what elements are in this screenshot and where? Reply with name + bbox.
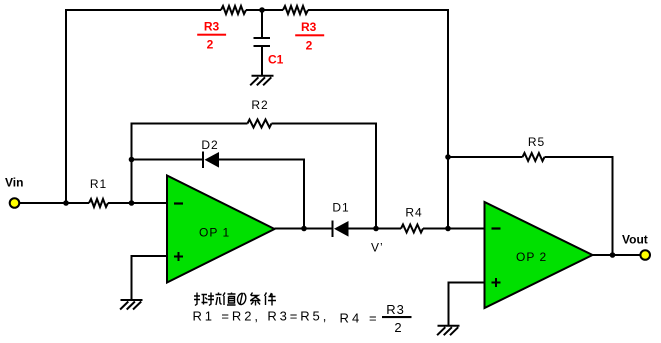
svg-text:OP 1: OP 1	[199, 226, 230, 240]
resistor R1	[89, 199, 108, 207]
text fraction R3/2 (black)	[382, 302, 412, 335]
svg-text:R3: R3	[204, 20, 220, 34]
node Vout	[610, 252, 616, 258]
svg-text:2: 2	[207, 38, 214, 52]
svg-text:R3: R3	[386, 302, 405, 317]
svg-text:Vout: Vout	[622, 233, 648, 247]
capacitor C1	[254, 38, 271, 46]
wire Vin to R1	[20, 202, 89, 204]
wire OP1 non-inverting input	[132, 256, 168, 300]
diode D1	[333, 221, 349, 238]
node V'	[373, 226, 379, 232]
wire R4 to OP2 inverting input	[423, 228, 485, 230]
label Vout	[622, 233, 648, 247]
resistor R5	[523, 153, 545, 161]
label node V'	[371, 241, 384, 255]
svg-text:D2: D2	[201, 138, 218, 152]
ground (OP2 +)	[437, 326, 459, 336]
label R3/2 right (red fraction)	[295, 20, 324, 53]
node R5 tap	[445, 154, 451, 160]
svg-text:R4 =: R4 =	[340, 311, 380, 326]
resistor R4	[401, 225, 423, 233]
node OP2 input	[445, 226, 451, 232]
label Vin	[5, 176, 23, 190]
label C1 (red)	[268, 53, 284, 67]
label R4	[405, 206, 422, 220]
resistor R3/2 left	[221, 6, 246, 14]
kanji 件	[265, 293, 277, 306]
text equation R4 =	[340, 311, 380, 326]
wire OP2 output to Vout	[593, 254, 641, 256]
svg-text:2: 2	[394, 320, 401, 335]
wire OP2 non-inverting input	[449, 283, 485, 326]
svg-text:C1: C1	[268, 53, 284, 67]
svg-text:2: 2	[306, 39, 313, 53]
node top (R3/C1)	[259, 7, 265, 13]
svg-text:R3: R3	[301, 20, 317, 34]
wire C1 stem bottom	[261, 47, 263, 75]
svg-text:R5: R5	[528, 135, 545, 149]
wire D1 to R4	[349, 228, 402, 230]
ground (OP1 +)	[120, 300, 142, 310]
wire R1 to OP1 inverting input	[108, 202, 167, 204]
label D1	[332, 201, 349, 215]
wire feedback column x=131.5	[131, 123, 133, 205]
kanji 値	[223, 293, 236, 306]
wire D2 down to OP1 output	[303, 159, 305, 230]
wire right vertical	[447, 9, 449, 230]
wire D2 right	[219, 159, 304, 161]
resistor R2	[248, 120, 272, 128]
svg-text:R1 =R2, R3=R5,: R1 =R2, R3=R5,	[193, 309, 330, 324]
svg-text:R1: R1	[90, 177, 107, 191]
svg-text:R4: R4	[405, 206, 422, 220]
diode D2	[203, 152, 219, 169]
op-amp OP2	[485, 202, 593, 308]
wire R5 right	[545, 156, 613, 158]
svg-text:V’: V’	[371, 241, 384, 255]
terminal Vout	[640, 250, 650, 260]
node Vin/left rail	[63, 200, 69, 206]
kanji 抵	[194, 293, 208, 306]
svg-text:R2: R2	[251, 98, 268, 112]
op-amp OP1	[167, 176, 275, 283]
label D2	[201, 138, 218, 152]
wire top rail	[66, 9, 448, 11]
wire R2 down to node V'	[375, 123, 377, 230]
text title 抵抗値の条件 (hand-drawn kanji)	[194, 293, 276, 306]
ground (C1)	[250, 76, 273, 86]
svg-text:Vin: Vin	[5, 176, 23, 190]
wire R2 left	[132, 123, 248, 125]
node D2 left	[129, 157, 135, 163]
wire C1 stem top	[261, 10, 263, 37]
label R1	[90, 177, 107, 191]
svg-text:OP 2: OP 2	[516, 250, 547, 264]
svg-text:D1: D1	[332, 201, 349, 215]
wire OP1 output to D1	[275, 228, 333, 230]
terminal Vin	[10, 198, 20, 208]
text equation R1=R2, R3=R5	[193, 309, 330, 324]
kanji 条	[250, 293, 261, 306]
label R3/2 left (red fraction)	[197, 20, 226, 52]
node OP1 output	[301, 226, 307, 232]
resistor R3/2 right	[283, 6, 308, 14]
wire left vertical	[65, 9, 67, 204]
wire R5 left	[448, 156, 523, 158]
kanji 抗	[208, 293, 222, 306]
label R2	[251, 98, 268, 112]
label R5	[528, 135, 545, 149]
wire D2 left	[132, 159, 204, 161]
node R1/feedback	[129, 200, 135, 206]
kanji の	[237, 293, 245, 305]
wire R2 right	[272, 123, 377, 125]
wire R5 down to output	[612, 156, 614, 256]
